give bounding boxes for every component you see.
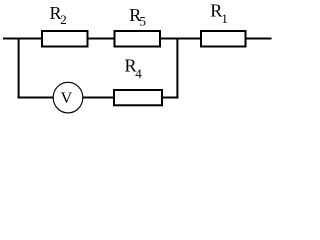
wire right vertical bbox=[176, 38, 178, 99]
wire top left lead bbox=[3, 38, 42, 40]
wire top right lead bbox=[246, 38, 272, 40]
svg-text:4: 4 bbox=[135, 66, 142, 81]
resistor R2 bbox=[42, 31, 88, 47]
svg-text:V: V bbox=[61, 90, 73, 107]
svg-text:5: 5 bbox=[140, 14, 147, 29]
resistor R4 bbox=[114, 90, 162, 105]
wire bottom right bbox=[162, 97, 178, 99]
svg-text:1: 1 bbox=[221, 11, 228, 26]
wire R2 to R5 bbox=[88, 38, 115, 40]
wire bottom left bbox=[18, 97, 54, 99]
svg-text:2: 2 bbox=[60, 12, 66, 27]
resistor R5 bbox=[115, 31, 161, 47]
resistor R1 bbox=[201, 31, 246, 47]
voltmeter V1 bbox=[53, 82, 83, 113]
wire R5 to R1 bbox=[160, 38, 201, 40]
wire left vertical bbox=[18, 38, 20, 98]
wire voltmeter to R4 bbox=[83, 97, 114, 99]
